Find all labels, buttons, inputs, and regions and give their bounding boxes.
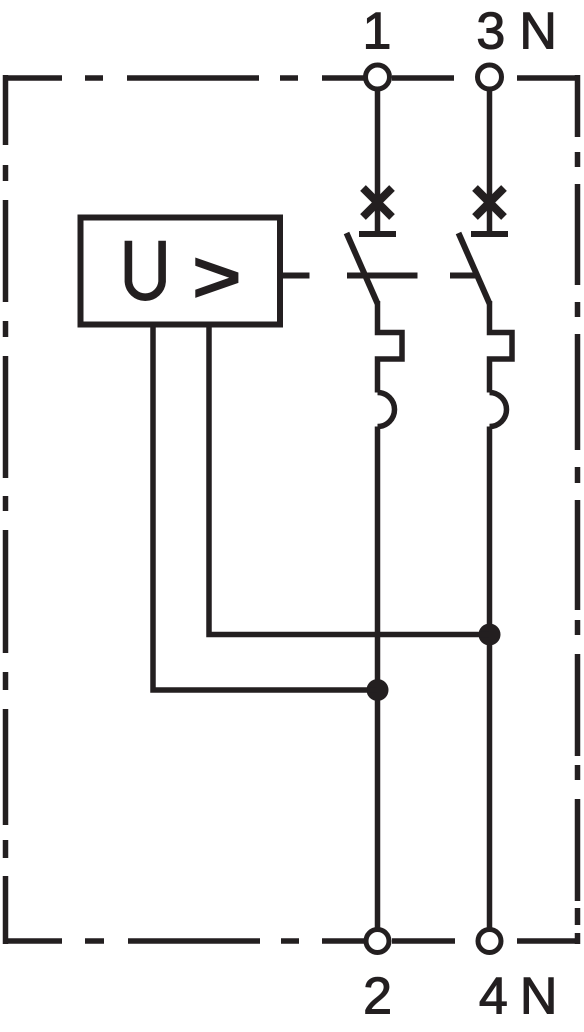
junction dot pole 2 bbox=[479, 624, 501, 646]
label 4 N bbox=[479, 968, 558, 1026]
terminal 4 (circle) bbox=[478, 930, 501, 953]
fixed contact bar pole 2 bbox=[471, 231, 508, 237]
wire pole 2 lower (coil to terminal 4) bbox=[487, 427, 493, 930]
wire pole 1 upper (terminal 1 to fixed contact) bbox=[375, 90, 381, 235]
svg-text:3: 3 bbox=[476, 2, 505, 60]
svg-text:2: 2 bbox=[363, 968, 392, 1026]
label 3 N bbox=[476, 2, 557, 60]
mechanical linkage dashed line bbox=[283, 273, 477, 279]
fixed contact bar pole 1 bbox=[359, 231, 396, 237]
wire U> output A (left stub to pole 1 junction) bbox=[153, 327, 378, 690]
terminal 3 (circle) bbox=[478, 65, 502, 89]
thermal release pole 2 (notch) bbox=[490, 301, 513, 393]
breaker function X pole 1 bbox=[363, 188, 392, 217]
svg-text:1: 1 bbox=[363, 2, 392, 60]
label > (drawn glyph) bbox=[195, 258, 238, 298]
wire U> output B (right stub to pole 2 junction) bbox=[209, 327, 490, 635]
breaker function X pole 2 bbox=[475, 188, 504, 217]
label U (drawn glyph) bbox=[128, 241, 162, 297]
enclosure border right (dash-dot) bbox=[575, 75, 581, 944]
magnetic release coil pole 1 (arc) bbox=[378, 393, 395, 427]
wire pole 1 lower (coil to terminal 2) bbox=[375, 427, 381, 930]
junction dot pole 1 bbox=[367, 679, 389, 701]
switch blade pole 1 bbox=[347, 233, 378, 304]
svg-text:N: N bbox=[519, 2, 557, 60]
magnetic release coil pole 2 (arc) bbox=[490, 393, 507, 427]
svg-text:N: N bbox=[520, 968, 558, 1026]
switch blade pole 2 bbox=[459, 233, 490, 304]
terminal 1 (circle) bbox=[366, 65, 390, 89]
svg-text:4: 4 bbox=[479, 968, 508, 1026]
enclosure border bottom (dash-dot) bbox=[3, 938, 580, 944]
undervoltage release box U> bbox=[81, 218, 281, 325]
enclosure border top (dash-dot) bbox=[3, 75, 580, 81]
thermal release pole 1 (notch) bbox=[378, 301, 403, 393]
terminal 2 (circle) bbox=[366, 930, 389, 953]
enclosure border left (dash-dot) bbox=[3, 75, 9, 944]
wire pole 2 upper (terminal 3 to fixed contact) bbox=[487, 90, 493, 235]
